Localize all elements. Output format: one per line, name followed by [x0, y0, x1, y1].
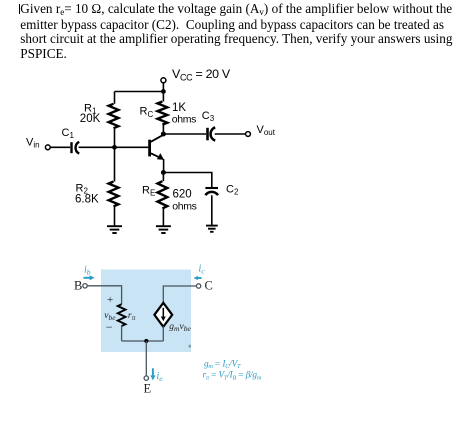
wire to E terminal	[145, 341, 147, 376]
resistor R2	[109, 147, 119, 226]
wire C1 to base	[79, 146, 149, 148]
svg-text:620: 620	[173, 188, 192, 200]
wire collector to C3	[163, 133, 206, 135]
svg-text:VCC = 20 V: VCC = 20 V	[172, 67, 231, 82]
node emitter	[161, 170, 166, 175]
svg-text:gm = IC/VT: gm = IC/VT	[204, 359, 241, 370]
terminal Vout	[246, 132, 251, 137]
node Vcc rail junction	[161, 89, 166, 94]
svg-text:ohms: ohms	[172, 114, 196, 126]
svg-text:Vout: Vout	[257, 124, 276, 137]
node bottom junction	[144, 339, 148, 343]
wire B to rpi	[87, 286, 121, 304]
svg-text:gmvbe: gmvbe	[169, 322, 191, 333]
svg-text:20K: 20K	[80, 113, 101, 125]
transistor Q1	[148, 135, 164, 173]
wire C2 to ground	[211, 195, 213, 225]
cursor bar	[19, 4, 20, 14]
wire rpi to bottom rail	[121, 326, 123, 341]
capacitor C1	[72, 142, 80, 154]
wire bottom rail	[122, 340, 164, 342]
capacitor C3	[208, 127, 216, 140]
terminal E	[144, 376, 148, 380]
ground below RE	[156, 226, 171, 233]
dependent source gm*vbe	[154, 303, 172, 327]
current ie arrow	[150, 368, 155, 380]
svg-text:ib: ib	[84, 265, 91, 277]
hybrid-pi model shaded box	[101, 270, 191, 353]
svg-text:C3: C3	[202, 110, 215, 123]
node collector	[161, 132, 166, 137]
box corner mark	[189, 345, 191, 348]
svg-text:6.8K: 6.8K	[75, 193, 99, 205]
resistor rpi	[118, 304, 126, 326]
svg-text:ohms: ohms	[172, 201, 196, 213]
svg-text:1K: 1K	[172, 102, 186, 114]
terminal B	[83, 284, 87, 288]
svg-text:ie: ie	[157, 371, 164, 383]
Vcc terminal	[161, 78, 166, 83]
resistor RE	[158, 175, 168, 226]
wire emitter to C2	[163, 173, 211, 188]
capacitor C2	[205, 188, 218, 195]
wire C3 to Vout	[215, 133, 246, 135]
wire top rail	[115, 91, 164, 93]
wire C to source	[163, 286, 196, 303]
svg-text:RE: RE	[142, 184, 155, 197]
svg-text:RC: RC	[140, 106, 154, 119]
svg-text:ic: ic	[199, 264, 206, 276]
svg-text:rπ = VT/IB = β/gm: rπ = VT/IB = β/gm	[203, 371, 262, 382]
current ib arrow	[84, 275, 95, 280]
node base junction	[112, 145, 117, 150]
current ic arrow	[193, 276, 201, 280]
wire source to bottom rail	[162, 326, 164, 341]
svg-text:+: +	[107, 294, 113, 306]
svg-text:B: B	[74, 279, 82, 293]
wire Vcc to rail	[162, 83, 164, 92]
svg-text:−: −	[106, 320, 113, 334]
svg-text:E: E	[144, 382, 152, 396]
svg-text:C: C	[205, 279, 213, 293]
ground below C2	[206, 226, 218, 232]
svg-text:Vin: Vin	[26, 137, 40, 150]
problem text	[20, 2, 472, 61]
resistor RC	[158, 94, 168, 132]
resistor R1	[109, 92, 119, 148]
svg-text:C2: C2	[226, 183, 239, 196]
ground below R2	[107, 226, 122, 233]
svg-text:C1: C1	[62, 127, 75, 140]
terminal Vin	[45, 145, 50, 150]
wire Vin to C1	[50, 146, 70, 148]
terminal C	[196, 284, 200, 288]
svg-text:rπ: rπ	[128, 311, 136, 322]
